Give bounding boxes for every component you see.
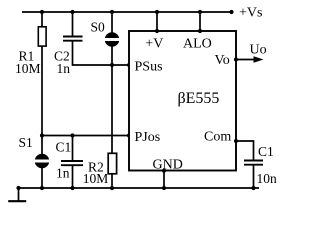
pin dot: GND at IC bottom edge — [162, 169, 166, 173]
wire: Com to C1 right (elbow) — [236, 141, 254, 161]
svg-text:ALO: ALO — [183, 37, 212, 52]
resistor R2 — [108, 153, 116, 174]
wire: Vo output — [236, 59, 256, 61]
junction: S0/R2 node on PSus net — [110, 63, 114, 67]
wire: C1 left branch (PJos to ground) upper — [72, 136, 74, 162]
wire: top +Vs rail — [22, 11, 232, 13]
wire: C1 right to ground rail — [253, 165, 255, 188]
sensor S0 — [105, 32, 120, 47]
svg-text:Uo: Uo — [250, 43, 267, 58]
wire: GND pin to ground rail — [163, 171, 165, 188]
node: ALO pin top junction — [198, 10, 202, 14]
pin dot: Com at IC right edge — [234, 139, 238, 143]
wire: PJos net horizontal — [42, 135, 129, 137]
svg-text:Vo: Vo — [215, 53, 230, 68]
ground — [18, 188, 20, 201]
svg-text:βE555: βE555 — [178, 90, 220, 107]
pin dot: ALO at IC top edge — [198, 29, 202, 33]
wire: C1 left branch lower — [72, 165, 74, 188]
svg-text:10M: 10M — [83, 171, 109, 186]
svg-text:+Vs: +Vs — [239, 5, 262, 20]
node: R1 top junction — [40, 10, 44, 14]
node: C1 right bottom junction — [251, 186, 255, 190]
node: R2 bottom junction — [110, 186, 114, 190]
wire: ALO pin branch — [199, 12, 201, 31]
wire: S0/R2 vertical branch — [111, 12, 113, 188]
svg-text:GND: GND — [153, 158, 183, 173]
wire: C2 top branch — [72, 12, 74, 37]
op-amp / IC U1 βE555 box — [129, 31, 236, 171]
wire: C2 to PSus pin (elbow) — [73, 41, 130, 65]
arrowhead: Uo output arrow — [254, 56, 264, 63]
wire: R1/S1 vertical branch — [41, 12, 43, 188]
capacitor C1 (right) — [244, 160, 263, 162]
+Vs terminal dot — [229, 10, 233, 14]
resistor R1 — [38, 27, 46, 46]
node: C2 top junction — [70, 10, 74, 14]
pin dot: Vo at IC right edge — [234, 57, 238, 61]
svg-text:1n: 1n — [56, 166, 70, 181]
sensor S1 — [35, 154, 50, 169]
svg-text:C1: C1 — [258, 144, 274, 159]
svg-text:PSus: PSus — [135, 60, 163, 75]
capacitor C1 (left) — [61, 160, 83, 162]
wire: bottom ground rail — [19, 187, 260, 189]
node: S0 top junction — [110, 10, 114, 14]
junction: PJos node on R1/S1 branch — [40, 133, 44, 137]
svg-text:PJos: PJos — [135, 130, 161, 145]
junction: C1 top node on PJos net — [70, 133, 74, 137]
svg-text:10M: 10M — [15, 61, 41, 76]
svg-text:+V: +V — [145, 37, 163, 52]
svg-text:Com: Com — [204, 130, 231, 145]
node: ground symbol junction — [16, 186, 20, 190]
svg-text:S0: S0 — [91, 20, 106, 35]
svg-text:C1: C1 — [56, 140, 72, 155]
wire: +V pin branch — [156, 12, 158, 31]
node: GND pin bottom junction — [162, 186, 166, 190]
svg-text:10n: 10n — [257, 171, 278, 186]
svg-text:1n: 1n — [57, 61, 71, 76]
node: C1 left bottom junction — [70, 186, 74, 190]
pin dot: PJos at IC edge — [127, 133, 131, 137]
pin dot: +V at IC top edge — [155, 29, 159, 33]
capacitor C2 — [63, 36, 83, 38]
pin dot: PSus at IC edge — [127, 63, 131, 67]
svg-text:S1: S1 — [19, 135, 33, 150]
node: S1 bottom junction — [40, 186, 44, 190]
node: +V pin top junction — [155, 10, 159, 14]
